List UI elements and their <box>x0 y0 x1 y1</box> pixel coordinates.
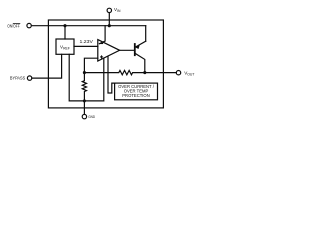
wire GND drop <box>83 101 85 114</box>
resistor R2 vertical <box>82 73 86 101</box>
wire op-amp output <box>120 49 135 51</box>
svg-text:PROTECTION: PROTECTION <box>122 93 149 98</box>
op-amp minus sign <box>100 43 103 44</box>
terminal GND <box>82 114 86 118</box>
wire ON/OFF rail <box>32 25 146 27</box>
wire VREF top <box>64 26 66 39</box>
junction feedback tap <box>83 71 86 74</box>
junction GND rail <box>83 99 86 102</box>
label ON/OFF overline <box>13 23 20 25</box>
terminal VIN <box>107 8 111 12</box>
junction ON/OFF-VREF <box>63 24 66 27</box>
wire op-amp to protection <box>108 57 115 93</box>
terminal VOUT <box>176 71 180 75</box>
wire VREF to op-amp minus <box>74 45 98 47</box>
svg-text:GND: GND <box>88 114 95 119</box>
wire emitter vertical <box>145 26 147 42</box>
transistor emitter arrow <box>135 45 140 49</box>
terminal BYPASS <box>27 76 31 80</box>
op-amp U1 <box>98 40 120 61</box>
svg-text:ON/OFF: ON/OFF <box>7 23 20 28</box>
resistor R1 horizontal <box>84 70 144 74</box>
transistor emitter <box>135 41 145 47</box>
transistor collector <box>135 54 144 73</box>
svg-text:BYPASS: BYPASS <box>10 76 25 81</box>
junction VOUT-collector <box>143 71 146 74</box>
transistor Q1 base bar <box>134 44 136 55</box>
IC outline box <box>48 20 163 108</box>
wire BYPASS <box>32 54 62 78</box>
terminal ON/OFF <box>27 23 31 27</box>
svg-text:1.23V: 1.23V <box>80 39 94 45</box>
op-amp plus sign <box>100 56 103 57</box>
wire VOUT <box>145 72 177 74</box>
protection box <box>115 83 158 100</box>
junction VIN <box>108 24 111 27</box>
wire VREF bottom to gnd rail <box>69 54 104 101</box>
wire VIN drop <box>108 13 110 26</box>
wire plus input <box>84 58 97 72</box>
wire op-amp supply <box>99 26 105 44</box>
reference VREF box <box>56 39 74 54</box>
